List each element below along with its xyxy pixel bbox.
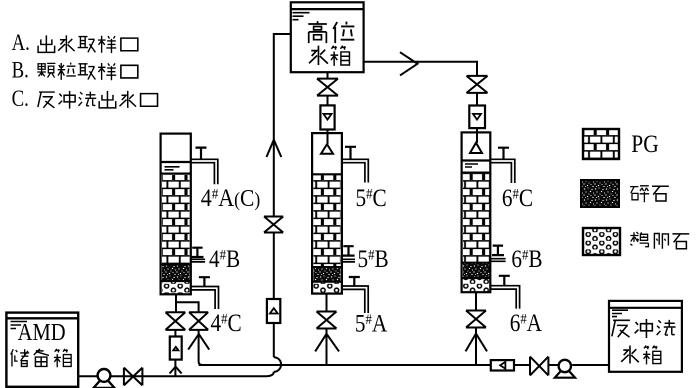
svg-text:B.: B. (12, 57, 29, 84)
svg-text:6#A: 6#A (510, 309, 543, 337)
svg-text:C.: C. (12, 85, 29, 112)
svg-text:PG: PG (631, 130, 659, 158)
svg-text:5#A: 5#A (355, 310, 388, 338)
svg-text:4#A(C): 4#A(C) (201, 184, 261, 213)
svg-text:A.: A. (12, 29, 30, 56)
svg-text:AMD: AMD (18, 319, 66, 346)
